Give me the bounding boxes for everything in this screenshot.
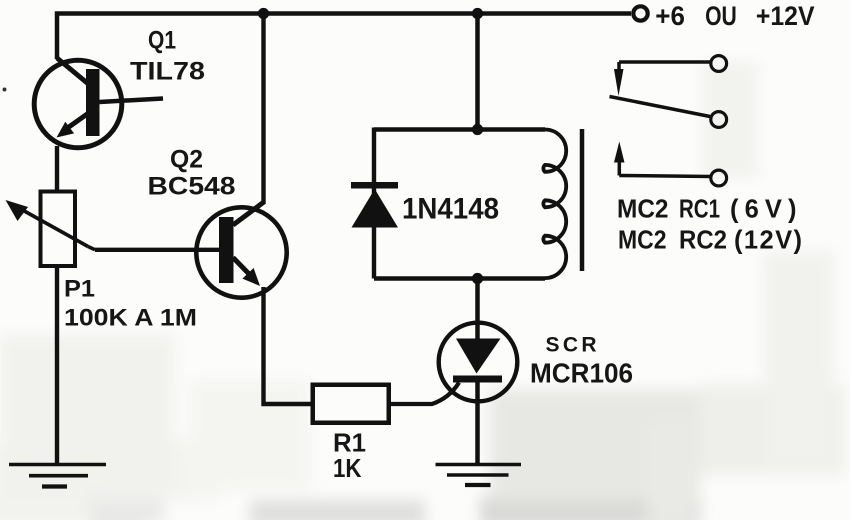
diode 1N4148 xyxy=(351,182,398,228)
wire Q1 emitter to P1 xyxy=(55,146,59,192)
resistor R1 xyxy=(313,385,389,423)
relay core bar xyxy=(580,129,585,271)
svg-text:TIL78: TIL78 xyxy=(130,58,205,86)
svg-text:OU: OU xyxy=(705,1,737,31)
transistor Q1 xyxy=(34,58,163,148)
svg-text:1N4148: 1N4148 xyxy=(402,193,499,226)
svg-text:Q2: Q2 xyxy=(170,146,203,174)
svg-text:RC2: RC2 xyxy=(679,227,727,255)
wire top rail xyxy=(57,14,631,60)
wire relay to SCR anode xyxy=(475,278,480,340)
label MC2 RC1 (6V) xyxy=(617,196,797,224)
svg-text:100K A 1M: 100K A 1M xyxy=(64,305,197,332)
node relay top junction xyxy=(472,124,483,135)
svg-text:RC1: RC1 xyxy=(679,196,720,224)
wire relay bottom xyxy=(374,276,545,280)
wire relay top xyxy=(374,127,545,131)
wire diode branch xyxy=(372,128,376,279)
wire rail to relay top xyxy=(475,14,480,130)
potentiometer P1 xyxy=(6,192,96,267)
supply terminal xyxy=(633,6,647,20)
svg-text:Q1: Q1 xyxy=(148,27,176,55)
label +6 OU +12V xyxy=(655,1,814,31)
svg-text:MCR106: MCR106 xyxy=(530,358,633,389)
svg-text:P1: P1 xyxy=(64,276,95,303)
ground left xyxy=(9,465,106,487)
wire rail to Q2 collector xyxy=(261,14,265,204)
relay armature xyxy=(610,97,727,128)
node relay bottom junction xyxy=(472,273,483,284)
node rail-Q2 junction xyxy=(258,8,269,19)
label MC2 RC2 (12V) xyxy=(618,227,802,255)
wire P1 wiper to Q2 base xyxy=(95,248,220,252)
svg-text:(6V): (6V) xyxy=(730,196,797,224)
svg-text:MC2: MC2 xyxy=(617,196,669,224)
transistor Q2 xyxy=(196,202,286,298)
relay contact NO xyxy=(614,142,727,186)
svg-text:BC548: BC548 xyxy=(148,173,236,201)
svg-text:+6: +6 xyxy=(655,1,685,31)
node rail-relay junction xyxy=(472,8,483,19)
svg-text:1K: 1K xyxy=(333,453,362,483)
wire P1 bottom to ground xyxy=(55,266,59,464)
svg-text:SCR: SCR xyxy=(546,334,597,357)
wire Q2 emitter down and right to R1 xyxy=(264,287,313,404)
relay coil K1 xyxy=(543,130,566,279)
svg-text:+12V: +12V xyxy=(756,1,815,31)
relay contact NC xyxy=(614,56,727,96)
svg-text:(12V): (12V) xyxy=(734,227,802,255)
SCR MCR106 xyxy=(439,323,518,402)
svg-text:MC2: MC2 xyxy=(618,227,667,255)
speck xyxy=(3,88,7,92)
wire R1 to SCR gate xyxy=(389,383,459,405)
wire SCR cathode to ground xyxy=(475,382,480,464)
ground right xyxy=(436,465,522,486)
